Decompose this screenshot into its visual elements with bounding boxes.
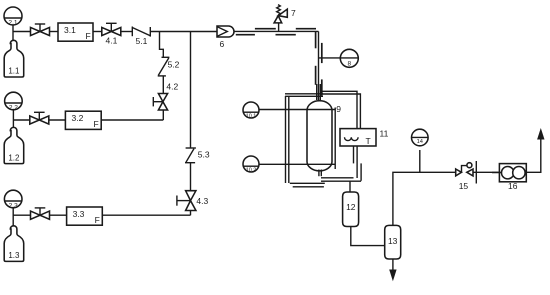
svg-text:3.1: 3.1 bbox=[64, 25, 76, 35]
flexible coupling 5.2 bbox=[158, 57, 180, 76]
svg-text:1.2: 1.2 bbox=[8, 153, 20, 162]
wire thermostat down (double) bbox=[353, 146, 355, 163]
svg-text:5.3: 5.3 bbox=[198, 150, 210, 160]
valve (row1 cylinder valve) bbox=[31, 24, 50, 36]
wire 3.3 to riser of valve 4.3 bbox=[102, 214, 190, 216]
furnace wall top (double) bbox=[285, 93, 323, 95]
wire outlet to trap 12 bbox=[349, 181, 351, 192]
svg-text:16: 16 bbox=[508, 181, 518, 191]
svg-text:3.2: 3.2 bbox=[72, 113, 84, 123]
wire gauge2.1 stem bbox=[12, 25, 14, 41]
valve (row3 cylinder valve) bbox=[31, 208, 50, 219]
svg-text:F: F bbox=[95, 215, 100, 225]
svg-text:3.3: 3.3 bbox=[73, 209, 85, 219]
flow controller 3.3 bbox=[67, 207, 103, 225]
gas cylinder 1.2 bbox=[4, 127, 24, 163]
furnace wall right bbox=[334, 108, 336, 170]
valve 4.1 bbox=[102, 23, 121, 45]
gas cylinder 1.3 bbox=[4, 226, 24, 262]
svg-text:9: 9 bbox=[336, 104, 341, 114]
wire row3 cylinder to valve bbox=[13, 214, 30, 216]
wire heated reactor outlet (double) bbox=[321, 177, 354, 179]
svg-text:5.1: 5.1 bbox=[136, 36, 148, 46]
svg-text:14: 14 bbox=[417, 139, 423, 145]
svg-text:6: 6 bbox=[220, 39, 225, 49]
trap vessel 12 bbox=[343, 192, 359, 227]
wire valve to flow controller 3.3 bbox=[50, 214, 67, 216]
gauge 14 bbox=[412, 129, 429, 172]
gas cylinder 1.1 bbox=[4, 40, 24, 77]
svg-text:7: 7 bbox=[291, 8, 296, 18]
wire separator bottom outlet bbox=[392, 259, 394, 271]
wire flow meter to vent bbox=[526, 139, 541, 172]
gauge 10.2 (thermocouple) bbox=[243, 156, 335, 173]
svg-text:8: 8 bbox=[347, 61, 351, 68]
wire furnace to thermostat (double) bbox=[322, 91, 357, 128]
wire row1 from cylinder to valve bbox=[13, 31, 31, 33]
wire heated line mixer to corner (traced pipe) bbox=[234, 30, 319, 32]
flow meter 16 bbox=[492, 164, 527, 191]
gauge 2.3 bbox=[4, 190, 22, 209]
flexible coupling 5.3 bbox=[185, 148, 210, 163]
svg-text:F: F bbox=[94, 119, 99, 129]
gauge 2.2 bbox=[5, 92, 23, 111]
flexible coupling 5.1 bbox=[132, 27, 150, 47]
valve 4.3 bbox=[177, 191, 209, 211]
svg-text:1.3: 1.3 bbox=[8, 251, 20, 260]
svg-text:5.2: 5.2 bbox=[168, 60, 180, 70]
wire valve to flow controller 3.1 bbox=[50, 31, 59, 33]
wire riser row2 to row1 (with jog) bbox=[160, 32, 164, 121]
wire heated riser corner down to furnace (traced pipe) bbox=[318, 31, 320, 101]
svg-text:15: 15 bbox=[459, 181, 469, 191]
svg-text:4.2: 4.2 bbox=[166, 82, 178, 92]
reactor 9 vessel bbox=[307, 101, 341, 177]
svg-text:12: 12 bbox=[346, 202, 356, 212]
wire valve to flow controller 3.2 bbox=[49, 119, 66, 121]
wire separator top to sample line bbox=[393, 172, 456, 225]
mixer 6 bbox=[217, 26, 234, 49]
wire gauge2.2 stem bbox=[12, 110, 14, 128]
valve (row2 cylinder valve) bbox=[30, 112, 49, 124]
metering valve 15 bbox=[456, 161, 500, 191]
svg-text:T: T bbox=[366, 136, 371, 146]
wire 4.1 to coupling 5.1 bbox=[121, 31, 133, 33]
wire 3.2 to riser of valve 4.2 bbox=[101, 119, 163, 121]
relief valve 7 bbox=[274, 5, 296, 32]
svg-text:1.1: 1.1 bbox=[8, 67, 20, 76]
svg-text:13: 13 bbox=[388, 236, 398, 246]
wire riser row3 to row1 main line bbox=[190, 32, 192, 216]
svg-text:11: 11 bbox=[380, 129, 389, 139]
valve 4.2 bbox=[153, 82, 178, 111]
furnace wall left (double) bbox=[285, 96, 287, 183]
flow controller 3.2 bbox=[65, 111, 101, 129]
gauge 10.1 (thermocouple) bbox=[243, 102, 336, 119]
svg-text:4.3: 4.3 bbox=[196, 196, 208, 206]
wire 5.1 to mixer 6 bbox=[150, 31, 217, 33]
thermostat 11 bbox=[340, 129, 389, 147]
arrow vent outlet bbox=[537, 128, 544, 140]
gauge 8 bbox=[319, 49, 358, 67]
wire gauge2.3 stem bbox=[12, 207, 14, 226]
furnace wall bottom (double) bbox=[290, 182, 325, 184]
svg-text:4.1: 4.1 bbox=[106, 36, 118, 46]
wire trap 12 to separator 13 bbox=[351, 227, 385, 246]
wire 3.1 to valve 4.1 bbox=[93, 31, 102, 33]
wire row2 cylinder to valve bbox=[13, 119, 29, 121]
separator vessel 13 bbox=[385, 225, 401, 259]
svg-text:10.1: 10.1 bbox=[246, 113, 257, 119]
wire reactor inlet double pipe bbox=[316, 84, 318, 100]
gauge 2.1 bbox=[4, 7, 22, 26]
svg-text:10.2: 10.2 bbox=[246, 167, 257, 173]
arrow bottom outlet bbox=[389, 270, 396, 282]
flow controller 3.1 bbox=[58, 23, 93, 41]
svg-text:F: F bbox=[86, 31, 91, 41]
